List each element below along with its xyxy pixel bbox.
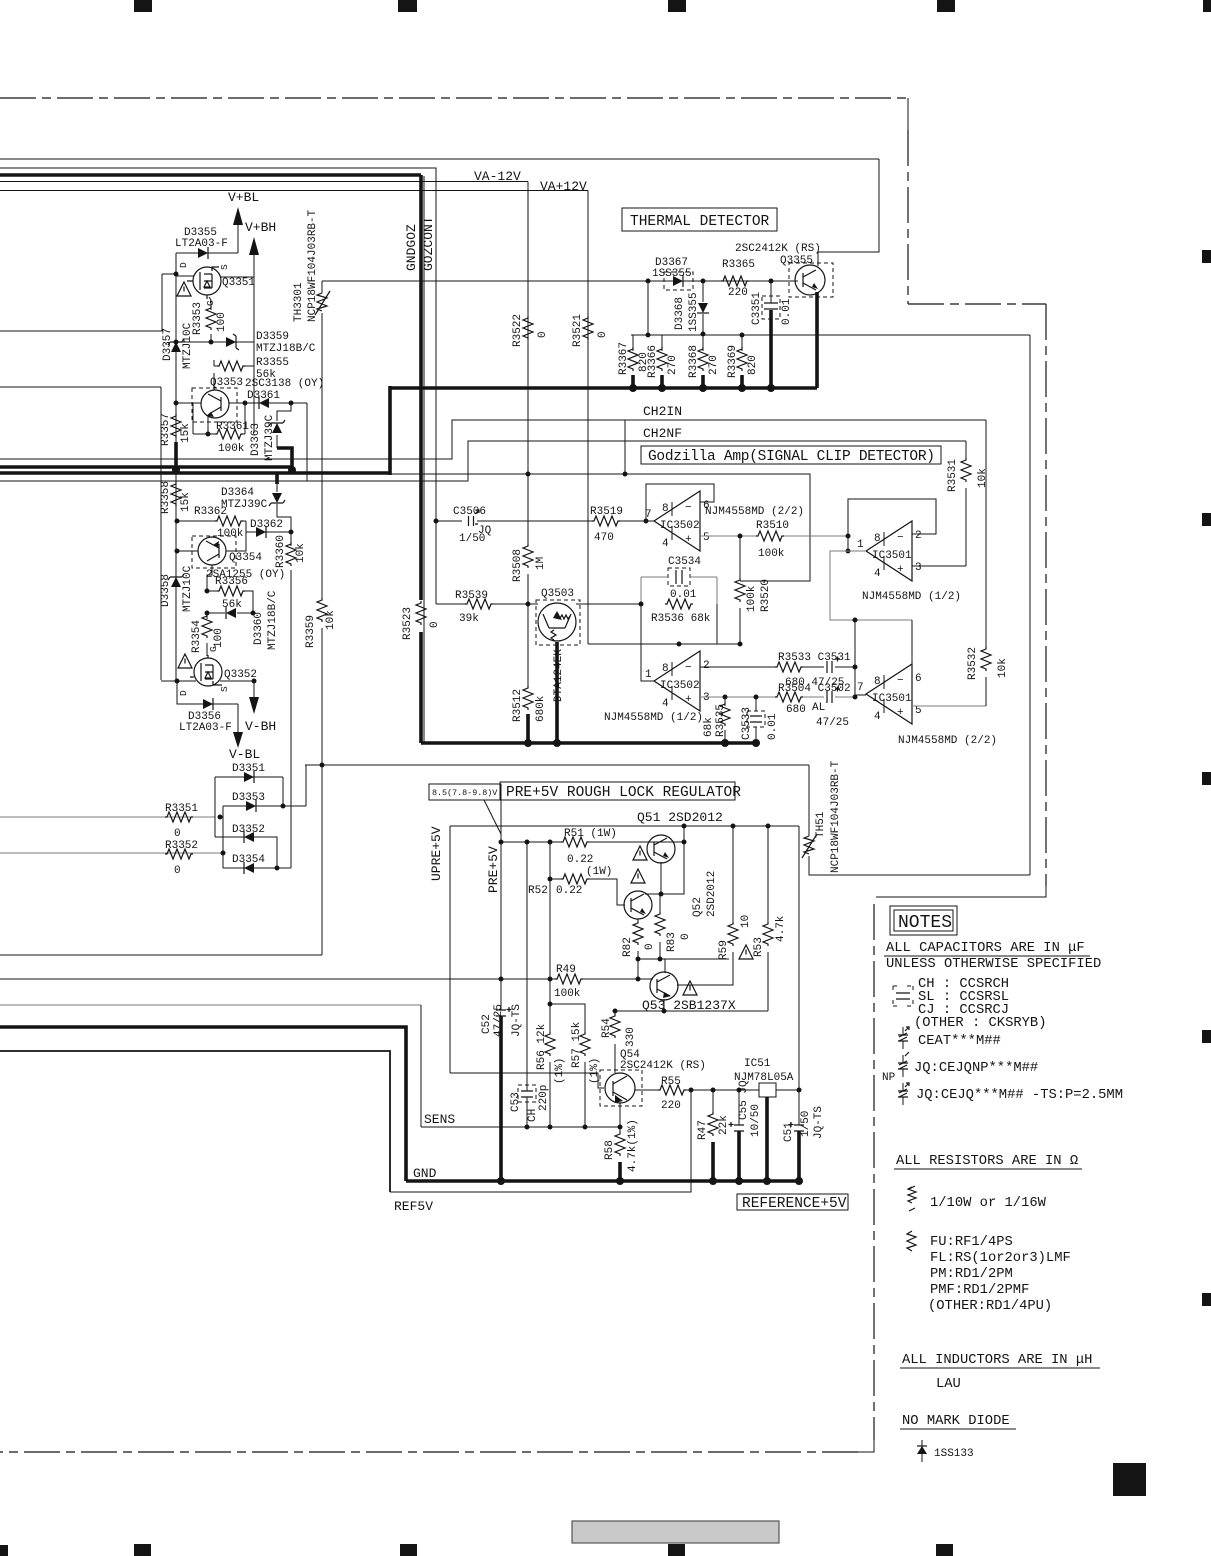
- resistor R59: [728, 922, 738, 946]
- wire V rail corner to Q3355 collector: [818, 159, 879, 266]
- thermistor TH3301: [315, 291, 330, 315]
- junction: [218, 815, 223, 820]
- junction: [616, 1177, 624, 1185]
- svg-text:8: 8: [874, 533, 881, 545]
- wire Q3352 source: [220, 681, 254, 697]
- symbol cap CEAT: [898, 1027, 909, 1049]
- svg-text:Q3353: Q3353: [210, 377, 243, 389]
- svg-text:10k: 10k: [997, 658, 1009, 678]
- wire PRE+5V vertical: [500, 842, 502, 1010]
- wire GNDGOZ vertical lower thick: [419, 632, 423, 743]
- svg-text:R3359: R3359: [305, 615, 317, 648]
- svg-text:R3531: R3531: [947, 459, 959, 492]
- wire Q51 collector: [645, 826, 684, 894]
- wire R3508 col: [527, 474, 529, 604]
- underline: [884, 955, 1090, 957]
- wire GNDGOZ vertical thick: [419, 175, 423, 600]
- wire R3355 row: [214, 365, 254, 367]
- pin stub 4: [671, 526, 673, 540]
- resistor R3353: [206, 306, 216, 330]
- capacitor C3534: [668, 568, 690, 586]
- resistor R3354: [202, 614, 212, 638]
- svg-text:10k: 10k: [325, 610, 337, 630]
- resistor R83: [655, 912, 665, 936]
- svg-text:R3521: R3521: [572, 314, 584, 347]
- junction: [618, 1125, 623, 1130]
- svg-text:R3366: R3366: [647, 345, 659, 378]
- junction: [737, 1088, 742, 1093]
- pin stub 8: [671, 662, 673, 676]
- wire D3368 col: [702, 281, 704, 334]
- sheet boundary corner top right: [907, 98, 909, 130]
- transistor Q3503: [538, 603, 576, 641]
- wire Q54 emitter: [619, 1103, 621, 1127]
- svg-text:(OTHER:RD1/4PU): (OTHER:RD1/4PU): [928, 1298, 1052, 1314]
- capacitor C55: [729, 1122, 745, 1131]
- sheet boundary dashed right: [1045, 304, 1047, 886]
- svg-text:R56 12k: R56 12k: [536, 1023, 548, 1070]
- junction: [853, 665, 858, 670]
- junction: [499, 977, 504, 982]
- wire Q3351 gate: [209, 297, 211, 310]
- dashed box Q3354: [192, 536, 236, 568]
- junction: [209, 340, 214, 345]
- pin stub 8: [883, 532, 885, 546]
- svg-text:NJM4558MD (1/2): NJM4558MD (1/2): [604, 712, 703, 724]
- wire R49 row: [0, 959, 653, 979]
- svg-text:5: 5: [915, 705, 922, 717]
- svg-text:C52: C52: [481, 1014, 493, 1034]
- wire R83 col: [659, 894, 661, 959]
- resistor R3367: [628, 347, 638, 371]
- capacitor C3502: [827, 687, 840, 704]
- wire diode net right rail: [282, 777, 284, 806]
- junction: [738, 534, 743, 539]
- wire horiz 954: [0, 954, 322, 956]
- svg-text:D3351: D3351: [232, 763, 265, 775]
- warning triangle Q51: [633, 846, 647, 860]
- junction: [613, 1009, 618, 1014]
- SEC:GODZILLA: [390, 420, 1009, 747]
- film label bar: [572, 1521, 779, 1543]
- resistor R3520: [735, 578, 745, 602]
- mosfet Q3352: [190, 655, 222, 686]
- svg-text:PM:RD1/2PM: PM:RD1/2PM: [930, 1266, 1013, 1282]
- resistor R3360: [286, 542, 296, 566]
- wire rail VA-12V: [0, 181, 528, 183]
- wire R3353 to D3359: [210, 334, 212, 342]
- wire combo rails: [641, 577, 717, 604]
- wire thick GND feed: [0, 1027, 406, 1181]
- svg-text:D3364: D3364: [221, 487, 254, 499]
- underline: [900, 1428, 1016, 1430]
- wire R54 col: [614, 1011, 616, 1073]
- wire R3535 col: [724, 697, 726, 743]
- dashed box Q54: [600, 1070, 642, 1106]
- wire R3368 R3369 bracket: [703, 335, 742, 351]
- wire R82 col: [637, 919, 639, 959]
- zener D3364: [269, 493, 285, 506]
- wire thermal emitter bus thick: [390, 386, 817, 390]
- op-amp IC3501 a: [866, 521, 912, 581]
- svg-text:R3533 C3531: R3533 C3531: [778, 652, 851, 664]
- svg-text:C55 JQ: C55 JQ: [738, 1080, 750, 1120]
- svg-text:FU:RF1/4PS: FU:RF1/4PS: [930, 1234, 1013, 1250]
- wire UPRE+5V vertical: [449, 826, 451, 1073]
- junction: [677, 642, 682, 647]
- junction: [623, 472, 628, 477]
- resistor R49: [555, 974, 583, 984]
- wire R3351 feed: [0, 816, 215, 818]
- wire C3534 branch: [641, 576, 717, 578]
- svg-text:5: 5: [703, 532, 710, 544]
- svg-text:S: S: [219, 264, 230, 270]
- resistor R3531: [961, 458, 971, 482]
- capacitor C3506: [469, 510, 480, 526]
- junction: [320, 763, 325, 768]
- wire R3357 to bus thick: [174, 442, 178, 473]
- svg-text:V+BL: V+BL: [228, 190, 259, 205]
- svg-text:10k: 10k: [977, 468, 989, 488]
- wire resistor feet thick: [633, 375, 742, 388]
- junction: [738, 384, 746, 392]
- wire D3362 row: [246, 521, 291, 532]
- resistor R82: [633, 921, 643, 945]
- junction: [289, 530, 294, 535]
- svg-text:R3352: R3352: [165, 840, 198, 852]
- diode D3356: [203, 698, 213, 710]
- wire D3356 row: [177, 681, 238, 704]
- svg-text:R3522: R3522: [512, 314, 524, 347]
- svg-text:2: 2: [703, 660, 710, 672]
- svg-text:LAU: LAU: [936, 1377, 961, 1392]
- svg-text:100k: 100k: [746, 585, 758, 612]
- resistor R3522: [523, 316, 533, 340]
- svg-text:R3520: R3520: [760, 579, 772, 612]
- svg-text:MTZJ18B/C: MTZJ18B/C: [267, 590, 279, 650]
- warning triangle Q3351: [177, 282, 191, 296]
- junction: [853, 695, 858, 700]
- capacitor C53: [518, 1085, 536, 1102]
- wire D3364: [275, 473, 279, 484]
- svg-text:D3359: D3359: [256, 331, 289, 343]
- wire R3360: [290, 532, 292, 868]
- wire R51 row: [501, 841, 684, 843]
- wire R3510 out gray: [784, 535, 848, 537]
- wire R3361 row: [193, 403, 245, 434]
- junction: [175, 549, 180, 554]
- transistor Q52: [624, 891, 652, 919]
- box label THERMAL DETECTOR: [622, 208, 777, 231]
- svg-text:C3533: C3533: [741, 707, 753, 740]
- svg-text:R3369: R3369: [727, 345, 739, 378]
- junction: [221, 851, 226, 856]
- wire bus thick A: [0, 465, 292, 469]
- svg-text:R82: R82: [622, 937, 634, 957]
- resistor R47: [708, 1112, 718, 1136]
- svg-text:V-BH: V-BH: [245, 719, 276, 734]
- underline: [900, 1367, 1100, 1369]
- wire CH2IN drop: [624, 420, 626, 474]
- svg-text:1: 1: [645, 669, 652, 681]
- resistor R3365: [721, 276, 749, 286]
- feedback wire pin2 IC3501a: [848, 499, 936, 551]
- svg-text:GOZCONT: GOZCONT: [421, 216, 436, 271]
- wire C3506 to R3519: [477, 520, 592, 522]
- registration mark bottom 2: [400, 1544, 417, 1556]
- warning triangle Q52: [631, 869, 645, 883]
- svg-text:CH2NF: CH2NF: [643, 426, 682, 441]
- junction: [699, 384, 707, 392]
- diode D3354: [244, 862, 254, 874]
- svg-text:MTZJ10C: MTZJ10C: [182, 565, 194, 612]
- wire Q51 emitter: [660, 862, 662, 894]
- SEC:TOPLEFT: [160, 190, 330, 680]
- resistor R3536: [665, 599, 693, 609]
- svg-text:C53: C53: [510, 1092, 522, 1112]
- svg-text:1/50: 1/50: [800, 1111, 812, 1137]
- wire rail GNDGOZ thick: [0, 173, 421, 177]
- resistor R3351: [165, 812, 193, 822]
- svg-text:270: 270: [708, 355, 720, 375]
- svg-text:22k: 22k: [718, 1115, 730, 1135]
- wire D3351 row: [215, 776, 283, 778]
- svg-text:R49: R49: [556, 964, 576, 976]
- wire GOZCONT to C3506: [436, 520, 462, 522]
- svg-text:D3358: D3358: [160, 574, 172, 607]
- svg-text:R3360: R3360: [275, 535, 287, 568]
- transistor Q53: [650, 972, 678, 1000]
- capacitor C51: [789, 1122, 805, 1131]
- resistor R3532: [981, 647, 991, 671]
- wire D3359 row: [176, 341, 254, 343]
- svg-text:IC3501: IC3501: [872, 693, 912, 705]
- registration mark top 4: [937, 0, 955, 12]
- junction: [731, 824, 736, 829]
- wire Q3353 base: [176, 403, 201, 434]
- svg-text:LT2A03-F: LT2A03-F: [175, 238, 228, 250]
- svg-text:D: D: [178, 690, 189, 696]
- zener D3363: [269, 420, 285, 433]
- svg-text:MTZJ39C: MTZJ39C: [221, 499, 268, 511]
- wire Q3355 emitter thick: [815, 292, 819, 388]
- thermistor TH51: [802, 834, 817, 858]
- wire TH51 col: [809, 765, 1030, 875]
- svg-text:MTZJ18B/C: MTZJ18B/C: [256, 343, 316, 355]
- junction: [738, 642, 743, 647]
- resistor R57: [580, 1032, 590, 1056]
- svg-text:+: +: [897, 707, 904, 719]
- svg-text:TH51: TH51: [815, 811, 827, 838]
- wire godzilla gnd bus thick: [421, 741, 758, 745]
- svg-text:220: 220: [728, 287, 748, 299]
- net arrow V-BH: [249, 697, 259, 714]
- svg-text:4: 4: [662, 698, 669, 710]
- wire C52 thick: [499, 1016, 503, 1181]
- sheet boundary dashed notes left: [873, 904, 875, 1440]
- wire C53 col: [526, 842, 528, 1127]
- wire C3351 col: [770, 281, 772, 303]
- svg-text:56k: 56k: [222, 599, 242, 611]
- svg-text:10: 10: [740, 915, 752, 928]
- svg-text:220: 220: [661, 1100, 681, 1112]
- wire C3533 col: [755, 697, 757, 743]
- svg-text:UPRE+5V: UPRE+5V: [429, 826, 444, 881]
- junction: [175, 679, 180, 684]
- svg-text:+: +: [685, 534, 692, 546]
- svg-text:UNLESS OTHERWISE SPECIFIED: UNLESS OTHERWISE SPECIFIED: [886, 957, 1101, 972]
- junction: [497, 1177, 505, 1185]
- svg-text:1SS133: 1SS133: [934, 1448, 974, 1460]
- connector box lower left: [0, 387, 161, 680]
- resistor R3512: [523, 686, 533, 710]
- wire GND bus thick: [406, 1179, 798, 1183]
- wire UPRE row: [450, 1073, 604, 1088]
- op-amp IC3502 a: [654, 491, 700, 551]
- svg-text:Q3352: Q3352: [224, 669, 257, 681]
- junction: [662, 1009, 667, 1014]
- junction: [499, 840, 504, 845]
- svg-text:R47: R47: [697, 1120, 709, 1140]
- svg-text:D3363: D3363: [250, 423, 262, 456]
- svg-text:1SS355: 1SS355: [688, 292, 700, 332]
- svg-text:+: +: [685, 694, 692, 706]
- resistor R58: [615, 1132, 625, 1156]
- wire D3354 row: [223, 867, 291, 869]
- resistor R55: [658, 1085, 686, 1095]
- svg-text:CH2IN: CH2IN: [643, 404, 682, 419]
- svg-text:IC51: IC51: [744, 1058, 771, 1070]
- junction: [548, 877, 553, 882]
- svg-text:0: 0: [644, 943, 656, 950]
- pin stub 8: [671, 502, 673, 516]
- svg-text:0: 0: [597, 331, 609, 338]
- svg-text:R3365: R3365: [722, 259, 755, 271]
- wire enclosure right: [1029, 335, 1031, 875]
- svg-text:NP: NP: [882, 1072, 896, 1084]
- resistor R3359: [317, 598, 327, 622]
- junction: [548, 977, 553, 982]
- wire thermal base row: [322, 280, 798, 282]
- diode D3351: [244, 771, 254, 783]
- junction: [275, 866, 280, 871]
- svg-text:270: 270: [667, 355, 679, 375]
- svg-text:68k: 68k: [703, 717, 715, 737]
- svg-text:2SC2412K (RS): 2SC2412K (RS): [735, 243, 821, 255]
- junction: [658, 957, 663, 962]
- warning triangle Q3352: [178, 654, 192, 668]
- junction: [721, 739, 729, 747]
- junction: [174, 340, 179, 345]
- SEC:MIDLEFT: [160, 473, 809, 955]
- junction: [735, 1177, 743, 1185]
- symbol cap JQ: [898, 1083, 909, 1105]
- resistor R3356: [217, 586, 245, 596]
- wire Q3354 collector: [207, 565, 212, 591]
- wire VA-12V drop: [527, 182, 529, 475]
- svg-text:2SC2412K (RS): 2SC2412K (RS): [620, 1060, 706, 1072]
- svg-text:0: 0: [174, 865, 181, 877]
- svg-text:−: −: [897, 532, 904, 544]
- junction: [766, 824, 771, 829]
- wire combo right to supply: [716, 604, 718, 644]
- svg-text:4: 4: [874, 711, 881, 723]
- wire Q53 collector row: [615, 999, 768, 1011]
- svg-text:NO MARK DIODE: NO MARK DIODE: [902, 1414, 1010, 1429]
- registration mark top 3: [668, 0, 686, 12]
- junction: [754, 695, 759, 700]
- svg-text:100k: 100k: [554, 988, 581, 1000]
- svg-text:MTZJ10C: MTZJ10C: [182, 322, 194, 369]
- zener D3361: [259, 397, 269, 409]
- svg-text:Q3354: Q3354: [229, 552, 262, 564]
- svg-text:V-BL: V-BL: [229, 747, 260, 762]
- svg-text:47/25: 47/25: [816, 717, 849, 729]
- svg-text:TH3301: TH3301: [293, 282, 305, 322]
- svg-text:0: 0: [174, 828, 181, 840]
- svg-text:1: 1: [857, 539, 864, 551]
- svg-text:JQ:CEJQNP***M##: JQ:CEJQNP***M##: [914, 1060, 1038, 1076]
- svg-text:7: 7: [857, 682, 864, 694]
- svg-text:Q51 2SD2012: Q51 2SD2012: [637, 810, 723, 825]
- svg-text:100: 100: [216, 312, 228, 332]
- junction: [644, 519, 649, 524]
- svg-text:C3534: C3534: [668, 556, 701, 568]
- wire CH2IN from edge: [0, 420, 986, 459]
- wire rail VBH: [253, 255, 255, 433]
- wire R3532 col: [985, 420, 987, 706]
- svg-text:−: −: [897, 675, 904, 687]
- box label PRE+5V ROUGH LOCK REGULATOR: [500, 782, 735, 800]
- registration mark bottom 1: [134, 1544, 151, 1556]
- svg-text:3: 3: [915, 562, 922, 574]
- junction: [639, 602, 644, 607]
- wire Q3351 drain: [176, 275, 194, 277]
- resistor R3369: [737, 347, 747, 371]
- print target square: [1113, 1463, 1146, 1496]
- svg-text:1SS355: 1SS355: [652, 268, 692, 280]
- transistor Q51: [647, 835, 675, 863]
- sheet boundary dashed top: [0, 97, 908, 99]
- wire x855 drop: [855, 620, 866, 695]
- resistor R3355: [217, 361, 245, 371]
- wire pin3 row gray: [700, 696, 776, 698]
- wire C51 thick: [797, 1131, 801, 1181]
- svg-text:R3539: R3539: [455, 590, 488, 602]
- dashed box Q3353: [192, 388, 237, 422]
- junction: [701, 332, 706, 337]
- svg-text:NCP18WF104J03RB-T: NCP18WF104J03RB-T: [307, 209, 319, 322]
- svg-text:R3356: R3356: [215, 576, 248, 588]
- zener D3360: [226, 607, 236, 619]
- svg-text:D3362: D3362: [250, 519, 283, 531]
- svg-text:4.7k(1%): 4.7k(1%): [627, 1119, 639, 1172]
- SEC:NOTES: [882, 906, 1123, 1462]
- sheet boundary dashed notes top: [876, 886, 1046, 897]
- wire R58 col: [619, 1127, 621, 1134]
- svg-text:R3512: R3512: [512, 689, 524, 722]
- svg-text:2: 2: [915, 530, 922, 542]
- junction: [583, 1125, 588, 1130]
- wire R3520 col: [739, 536, 741, 644]
- registration mark right 2: [1202, 513, 1211, 526]
- svg-text:R3519: R3519: [590, 506, 623, 518]
- box label voltage: [429, 784, 501, 800]
- wire pre5v source row: [305, 764, 809, 766]
- svg-text:(1W): (1W): [586, 866, 612, 878]
- zener D3359: [226, 334, 239, 350]
- wire R53 col: [767, 826, 769, 1011]
